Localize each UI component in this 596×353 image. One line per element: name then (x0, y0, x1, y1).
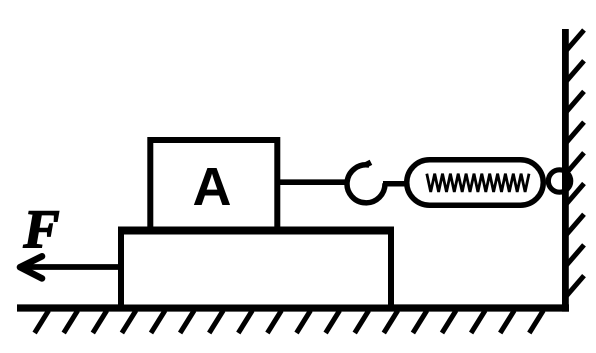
lower block thick top edge (118, 227, 394, 235)
hook tip (367, 161, 370, 166)
wall (562, 29, 569, 312)
force F arrowhead (20, 256, 42, 278)
ground hatching (35, 311, 544, 334)
force F arrow shaft (22, 264, 121, 270)
wire rod from A to hook (278, 179, 348, 185)
wall hook ring (548, 170, 570, 192)
ground (17, 304, 569, 311)
svg-text:A: A (193, 157, 232, 217)
spring housing capsule (407, 160, 544, 206)
wall hatching (565, 30, 584, 298)
hook (347, 165, 385, 203)
lower block (121, 231, 391, 308)
svg-text:F: F (23, 199, 60, 259)
spring coil zigzag (427, 174, 529, 192)
block A (150, 140, 277, 230)
wire connector hook to spring (383, 181, 410, 187)
